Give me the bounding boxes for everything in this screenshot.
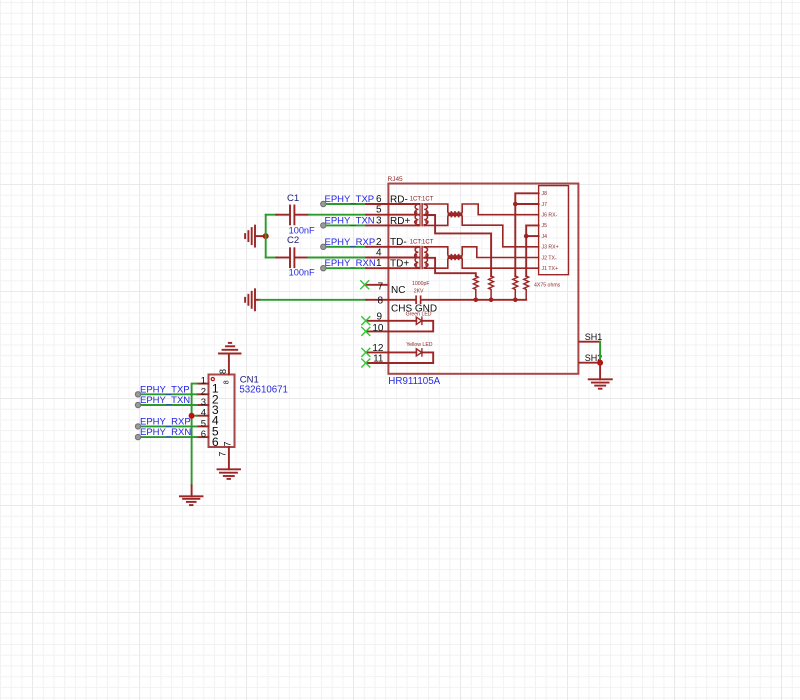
svg-text:7: 7	[377, 281, 383, 292]
svg-text:5: 5	[376, 205, 382, 216]
svg-text:100nF: 100nF	[289, 268, 315, 278]
svg-text:C1: C1	[287, 193, 299, 204]
junction dot pin4	[189, 413, 195, 419]
svg-text:NC: NC	[391, 285, 405, 296]
svg-text:J3 RX+: J3 RX+	[542, 245, 559, 251]
choke L1 (RD pair)	[424, 204, 538, 247]
op U1 RJ45 outer box	[388, 184, 578, 374]
svg-text:6: 6	[201, 429, 206, 440]
svg-text:7: 7	[223, 441, 233, 446]
svg-text:1CT:1CT: 1CT:1CT	[410, 197, 434, 203]
ground GND1 (left of C1/C2)	[245, 226, 266, 247]
svg-text:4: 4	[201, 408, 206, 419]
svg-text:J5: J5	[542, 223, 548, 229]
capacitor 1000pF 2KV	[388, 296, 526, 303]
svg-text:8: 8	[377, 295, 383, 306]
wire J8/J7 to R3	[515, 193, 538, 276]
svg-text:8: 8	[218, 369, 228, 374]
transformer T1 windings (1CT:1CT)	[388, 203, 428, 226]
no-connect X pin11	[362, 359, 370, 367]
svg-text:4: 4	[376, 248, 382, 259]
svg-text:6: 6	[376, 194, 382, 205]
svg-text:J6 RX-: J6 RX-	[542, 213, 558, 219]
no-connect X pin10	[362, 327, 370, 335]
svg-text:3: 3	[201, 397, 206, 408]
ground GND4 (bottom of green bus)	[180, 485, 203, 505]
wire EPHY_TXN to pin3	[323, 224, 366, 226]
svg-text:C2: C2	[287, 235, 299, 246]
wire row5 C1 to pin5 (green)	[309, 214, 367, 216]
svg-text:2: 2	[376, 237, 382, 248]
wire pin1/pin4 to ground (green)	[192, 384, 197, 486]
diode D1 Green LED	[388, 317, 433, 331]
junction dot J7	[513, 202, 518, 207]
CN1 EPHY wires (green)	[138, 384, 197, 486]
wire GND2 to pin 8 (green)	[260, 299, 367, 301]
wire end dots (grey)	[135, 392, 140, 440]
CN1 pin names (inside)	[212, 382, 219, 450]
transformer T2 windings (1CT:1CT)	[388, 246, 428, 269]
svg-text:6: 6	[212, 435, 219, 449]
choke L2 (TD pair)	[424, 247, 538, 268]
ground GND2 (left, to pin 8)	[245, 289, 260, 310]
svg-text:9: 9	[376, 311, 382, 322]
wire EPHY_TXP to pin6	[323, 203, 366, 205]
wire SH1-SH2 (green)	[599, 342, 601, 363]
svg-text:10: 10	[372, 323, 384, 334]
pin SH2	[579, 362, 600, 364]
no-connect X pin7	[361, 281, 370, 367]
pin numbers RJ45 left	[372, 194, 384, 365]
svg-text:EPHY_RXP: EPHY_RXP	[140, 416, 191, 427]
svg-text:J7: J7	[542, 202, 548, 208]
junction dot SH2	[597, 360, 603, 366]
capacitor C2	[276, 248, 308, 267]
wire T2 center tap to R1	[388, 258, 475, 276]
svg-text:1000pF: 1000pF	[412, 281, 430, 287]
svg-text:5: 5	[201, 418, 206, 429]
svg-text:2: 2	[201, 386, 206, 397]
svg-text:11: 11	[373, 354, 384, 365]
wire GND1 vertical (green)	[266, 215, 277, 258]
junction dots resistor bus	[474, 298, 479, 303]
connector CN1 box	[209, 375, 235, 448]
no-connect X pin9	[362, 317, 370, 325]
svg-text:EPHY_RXN: EPHY_RXN	[140, 427, 191, 438]
svg-text:2KV: 2KV	[414, 289, 424, 295]
svg-text:J8: J8	[542, 191, 548, 197]
wire EPHY_RXN to pin1	[323, 267, 366, 269]
svg-text:100nF: 100nF	[289, 225, 315, 235]
wire EPHY_RXP to pin2	[323, 246, 366, 248]
svg-text:1: 1	[201, 376, 206, 387]
svg-text:12: 12	[372, 343, 384, 354]
junction dot at GND1 node	[263, 233, 269, 239]
resistor R3 (75 ohm)	[513, 276, 518, 300]
resistor R1 (75 ohm)	[473, 276, 478, 300]
CN1 pin numbers	[201, 376, 206, 441]
ground GND3 (shield)	[589, 363, 612, 389]
svg-text:SH1: SH1	[585, 332, 603, 342]
pin 1 indicator circle	[211, 378, 214, 381]
wire end dots (grey)	[321, 201, 326, 271]
svg-text:4X75 ohms: 4X75 ohms	[534, 282, 561, 288]
svg-text:J1 TX+: J1 TX+	[542, 266, 558, 272]
svg-text:8: 8	[223, 380, 230, 384]
no-connect X pin12	[362, 348, 370, 356]
svg-text:Yellow LED: Yellow LED	[406, 342, 433, 348]
diode D2 Yellow LED	[388, 349, 433, 363]
pin SH1	[579, 341, 600, 343]
wire J5/J4 to R4	[526, 225, 538, 276]
svg-text:J4: J4	[542, 234, 548, 240]
wire T1 center tap to R2	[388, 215, 491, 276]
wire row4 C2 to pin4 (green)	[309, 257, 367, 259]
svg-text:Green LED: Green LED	[406, 312, 432, 318]
connector J (RJ45 jack contacts) inner box	[539, 186, 569, 275]
CN1 pin stubs	[197, 354, 229, 470]
svg-text:7: 7	[218, 452, 228, 457]
svg-text:EPHY_TXN: EPHY_TXN	[140, 395, 190, 406]
svg-text:HR911105A: HR911105A	[388, 376, 440, 387]
capacitor C1	[276, 206, 308, 225]
ground GND6 (below CN1 pin 7)	[218, 469, 241, 479]
svg-text:RJ45: RJ45	[388, 176, 404, 183]
resistor R4 (75 ohm)	[524, 276, 529, 300]
svg-text:1: 1	[376, 258, 382, 269]
resistor R2 (75 ohm)	[489, 276, 494, 300]
svg-text:EPHY_TXP: EPHY_TXP	[140, 384, 190, 395]
U1 RJ45 pins (left stubs)	[365, 204, 389, 363]
svg-text:1CT:1CT: 1CT:1CT	[410, 239, 434, 245]
svg-text:532610671: 532610671	[239, 384, 288, 395]
svg-text:3: 3	[376, 215, 382, 226]
ground GND5 (above CN1, rotated)	[219, 343, 241, 354]
junction dot J4	[524, 234, 529, 239]
svg-text:J2 TX-: J2 TX-	[542, 255, 557, 261]
pin names RJ45	[390, 194, 437, 314]
